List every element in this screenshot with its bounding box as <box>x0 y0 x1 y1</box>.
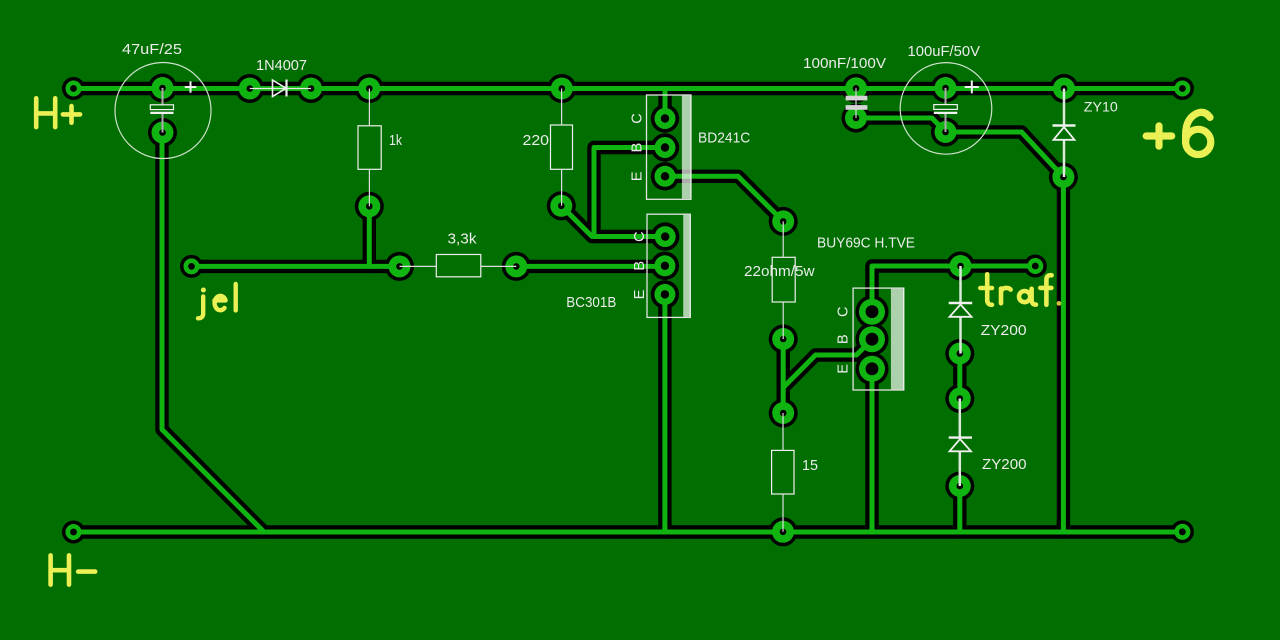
pad R1 1k top copper <box>358 78 380 100</box>
pad R5 15 bottom hole <box>780 529 787 536</box>
pad rail end hole <box>1179 528 1186 535</box>
svg-text:E: E <box>632 289 648 299</box>
wire bottom rail H- <box>74 525 1183 538</box>
pad R2 220 top ring <box>547 74 576 103</box>
resistor R5 15 <box>772 450 794 494</box>
wire H+ top rail copper <box>74 86 1183 91</box>
pad jel input ring <box>180 255 203 278</box>
pad C3 100uF plus copper <box>935 77 957 99</box>
capacitor C1 47uF/25 circle <box>115 63 211 159</box>
pad traf terminal copper <box>1027 258 1043 274</box>
pad U1 BD241C C copper <box>655 108 676 129</box>
wire H+ top rail <box>74 82 1183 95</box>
wire BUY69C base branch copper <box>783 339 872 387</box>
wire 100uF to ZY10 copper <box>946 132 1064 177</box>
pad H- terminal ring <box>62 521 85 544</box>
pad R5 15 top ring <box>769 399 798 428</box>
wire BD241C collector copper <box>663 89 668 119</box>
pad Q2 BC301B B ring <box>651 252 679 280</box>
pad U1 BD241C E hole <box>661 172 669 180</box>
wire BD241C base U-route <box>594 148 665 237</box>
pad D4 ZY200 top hole <box>957 395 964 402</box>
pad C2 100nF bottom ring <box>842 104 871 133</box>
pad C2 100nF bottom hole <box>853 115 860 122</box>
svg-text:1N4007: 1N4007 <box>256 57 307 74</box>
wire 3,3k to BC301B base <box>516 260 665 273</box>
pad Q2 BC301B C ring <box>651 222 679 250</box>
pad R4 22ohm top hole <box>780 218 787 225</box>
pad C1 47uF minus ring <box>148 118 177 147</box>
pad C1 47uF minus copper <box>152 122 174 144</box>
pad D2 ZY10 bottom ring <box>1049 163 1078 192</box>
resistor R2 220 <box>551 125 573 169</box>
pad R1 1k bottom hole <box>366 203 373 210</box>
pad R1 1k bottom ring <box>355 192 384 221</box>
transistor U1 BD241C metal stripe <box>682 96 691 199</box>
wire 47uF minus drop copper <box>162 133 264 533</box>
capacitor C3 plates <box>934 105 958 110</box>
pad C1 47uF plus ring <box>148 74 177 103</box>
pad D1 1N4007 anode hole <box>247 85 254 92</box>
resistor R1 1k <box>358 126 381 170</box>
svg-text:ZY10: ZY10 <box>1084 98 1118 114</box>
wire 3,3k to base copper <box>516 264 665 269</box>
pad R5 15 bottom copper <box>772 521 794 543</box>
pad R4 22ohm top copper <box>772 210 794 232</box>
capacitor C2 100nF plates <box>846 96 868 101</box>
capacitor C3 100uF/50V circle <box>900 63 992 155</box>
wire ZY10 drop to rail <box>1057 177 1070 532</box>
pad R2 220 bottom copper <box>550 195 572 217</box>
pad U1 BD241C B copper <box>655 137 676 158</box>
pad D1 1N4007 anode copper <box>239 78 261 100</box>
pad H+ terminal copper <box>66 81 82 97</box>
pad R5 15 bottom ring <box>769 517 798 546</box>
pad Q3 BUY69C C hole <box>866 305 879 318</box>
svg-text:ZY200: ZY200 <box>982 456 1027 473</box>
capacitor C2 100nF leads <box>855 88 857 118</box>
svg-text:100uF/50V: 100uF/50V <box>908 43 981 60</box>
pad C3 100uF plus ring <box>931 74 960 103</box>
pad C1 47uF plus copper <box>152 77 174 99</box>
pad C2 100nF top hole <box>853 85 860 92</box>
wire branch to BUY69C base <box>783 339 872 387</box>
svg-text:C: C <box>836 306 852 316</box>
transistor Q3 BUY69C metal stripe <box>891 289 904 390</box>
pad R5 15 top hole <box>780 410 787 417</box>
pad R2 220 bottom hole <box>558 203 565 210</box>
diode D2 ZY10 symbol <box>1053 124 1076 126</box>
capacitor C1 plates <box>150 105 173 110</box>
svg-text:B: B <box>632 261 648 271</box>
svg-text:E: E <box>630 171 646 181</box>
pad rail end copper <box>1174 524 1190 540</box>
pad Q3 BUY69C B copper <box>859 326 885 352</box>
svg-text:100nF/100V: 100nF/100V <box>803 55 886 72</box>
svg-text:BUY69C H.TVE: BUY69C H.TVE <box>817 235 915 252</box>
pad Q2 BC301B E ring <box>651 280 679 308</box>
pad R3 3,3k left ring <box>385 252 414 281</box>
pad Q3 BUY69C B hole <box>866 333 879 346</box>
pad D2 ZY10 bottom copper <box>1052 166 1074 188</box>
pad C3 100uF minus copper <box>935 121 957 143</box>
pad Q3 BUY69C E copper <box>859 356 885 382</box>
wire 100nF jog copper <box>856 118 946 132</box>
pad Q3 BUY69C C ring <box>856 295 889 328</box>
pad Q2 BC301B B hole <box>661 262 669 270</box>
wire bottom rail copper <box>74 530 1183 535</box>
pad H+ terminal hole <box>70 85 77 92</box>
pad R2 220 top copper <box>551 78 573 100</box>
transistor Q3 BUY69C outline <box>853 288 904 390</box>
pad +6 output hole <box>1179 85 1186 92</box>
pad D3 ZY200 top hole <box>957 263 964 270</box>
transistor U1 BD241C outline <box>647 95 692 199</box>
pad D4 ZY200 top copper <box>949 388 971 410</box>
pad R5 15 top copper <box>772 402 794 424</box>
pad D2 ZY10 top copper <box>1053 78 1075 100</box>
svg-text:E: E <box>836 364 852 374</box>
pad R4 22ohm top ring <box>769 207 798 236</box>
wire 220 bottom diagonal <box>561 206 592 237</box>
wire traf extension <box>961 259 1036 272</box>
node +6 <box>1146 112 1211 154</box>
svg-text:BC301B: BC301B <box>566 294 616 311</box>
pad U1 BD241C E copper <box>655 166 676 187</box>
pad R4 22ohm bottom ring <box>769 325 798 354</box>
pad R3 3,3k right copper <box>505 255 527 277</box>
svg-text:22ohm/5w: 22ohm/5w <box>744 263 815 280</box>
transistor Q2 BC301B outline <box>647 214 690 317</box>
svg-text:C: C <box>630 113 646 123</box>
pad H- terminal copper <box>66 524 82 540</box>
wire BD241C collector up <box>658 89 671 119</box>
wire 22ohm-15 vertical copper <box>781 339 786 413</box>
pad Q3 BUY69C C copper <box>859 299 885 325</box>
pad +6 output copper <box>1174 81 1190 97</box>
pad R3 3,3k left copper <box>389 255 411 277</box>
pad Q2 BC301B E hole <box>661 290 669 298</box>
node H+ <box>36 98 80 127</box>
pad C3 100uF minus hole <box>942 129 949 136</box>
pad D4 ZY200 bottom hole <box>957 483 964 490</box>
pad jel input copper <box>184 258 200 274</box>
pad D1 1N4007 cathode ring <box>297 74 326 103</box>
pad Q3 BUY69C E ring <box>856 352 889 385</box>
wire ZY200 mid copper <box>957 354 962 399</box>
diode D3 ZY200 top symbol <box>949 302 973 304</box>
pad C2 100nF bottom copper <box>845 107 867 129</box>
pad D4 ZY200 bottom ring <box>945 472 974 501</box>
pad rail end ring <box>1171 520 1194 543</box>
pad U1 BD241C C ring <box>651 104 679 132</box>
svg-text:47uF/25: 47uF/25 <box>122 41 182 58</box>
wire ZY200 mid <box>953 354 966 399</box>
wire ZY10 drop copper <box>1061 177 1066 532</box>
wire BUY69C collector copper <box>872 266 961 312</box>
svg-text:BD241C: BD241C <box>698 129 750 146</box>
node traf. <box>980 274 1061 306</box>
pad R3 3,3k right hole <box>513 263 520 270</box>
wire 1k drop copper <box>367 206 372 266</box>
diode D3 ZY200 top leads <box>959 266 962 354</box>
pad Q2 BC301B B copper <box>654 255 675 276</box>
pad R1 1k top hole <box>366 85 373 92</box>
pad traf terminal hole <box>1032 263 1039 270</box>
pad R3 3,3k right ring <box>502 252 531 281</box>
resistor R4 22ohm/5w <box>772 257 795 302</box>
pad R4 22ohm bottom hole <box>780 336 787 343</box>
pad Q3 BUY69C E hole <box>866 362 879 375</box>
capacitor C3 plus mark <box>965 81 979 94</box>
pad Q2 BC301B C copper <box>655 226 676 247</box>
svg-text:1k: 1k <box>389 132 402 149</box>
pad H+ terminal ring <box>62 77 85 100</box>
wire 100nF bottom jog <box>856 118 946 132</box>
wire BD241C emitter to 22ohm <box>665 176 783 221</box>
pad C2 100nF top ring <box>842 74 871 103</box>
pad U1 BD241C C hole <box>661 114 669 122</box>
capacitor C3 leads <box>945 88 947 132</box>
pad C2 100nF top copper <box>845 77 867 99</box>
pad D4 ZY200 bottom copper <box>949 475 971 497</box>
pad D1 1N4007 anode ring <box>235 74 264 103</box>
wire jel horizontal copper <box>192 264 400 269</box>
node jel <box>198 284 236 318</box>
pad D2 ZY10 top ring <box>1050 74 1079 103</box>
transistor Q2 BC301B metal stripe <box>683 215 690 317</box>
pad U1 BD241C E ring <box>651 162 679 190</box>
pad D4 ZY200 top ring <box>945 384 974 413</box>
capacitor C1 plus mark <box>185 81 197 93</box>
svg-text:B: B <box>630 143 646 153</box>
pad D1 1N4007 cathode hole <box>308 85 315 92</box>
pad jel input hole <box>188 263 195 270</box>
pad H- terminal hole <box>70 529 77 536</box>
pad D3 ZY200 top copper <box>950 255 972 277</box>
pad D2 ZY10 top hole <box>1061 85 1068 92</box>
wire BD241C base U copper <box>594 148 665 237</box>
wire BC301B emitter down <box>658 294 671 532</box>
diode D4 ZY200 bottom leads <box>959 399 962 487</box>
pad R4 22ohm bottom copper <box>772 328 794 350</box>
diode D1 1N4007 lead <box>250 88 311 90</box>
pad Q2 BC301B C hole <box>661 232 669 240</box>
diode D4 ZY200 bottom symbol <box>949 436 972 438</box>
svg-text:220: 220 <box>523 132 550 149</box>
wire 1k drop <box>363 206 376 266</box>
svg-text:3,3k: 3,3k <box>448 231 478 248</box>
pad Q3 BUY69C B ring <box>856 323 889 356</box>
pad R2 220 top hole <box>559 85 566 92</box>
wire jel horizontal <box>192 260 400 273</box>
pad D3 ZY200 bottom copper <box>949 343 971 365</box>
wire 220 diagonal copper <box>561 206 592 237</box>
wire BC301B emitter copper <box>662 294 667 532</box>
wire BD241C emitter copper <box>665 176 783 221</box>
pad C3 100uF plus hole <box>942 85 949 92</box>
wire traf extension copper <box>961 264 1036 269</box>
pad Q2 BC301B E copper <box>654 284 675 305</box>
pad U1 BD241C B ring <box>651 133 679 161</box>
pad +6 output ring <box>1171 77 1194 100</box>
pad R1 1k bottom copper <box>358 195 380 217</box>
pad traf terminal ring <box>1024 255 1047 278</box>
capacitor C1 leads <box>162 88 164 133</box>
svg-text:15: 15 <box>802 457 818 474</box>
svg-text:ZY200: ZY200 <box>981 322 1027 339</box>
pad D3 ZY200 bottom hole <box>957 350 964 357</box>
pad D1 1N4007 cathode copper <box>300 78 322 100</box>
wire BUY69C emitter down <box>865 369 878 532</box>
wire BUY69C collector to traf pad <box>872 266 961 312</box>
diode D2 ZY10 leads <box>1063 89 1066 178</box>
pad D3 ZY200 top ring <box>946 252 975 281</box>
wire 100uF minus to ZY10 <box>946 132 1064 177</box>
svg-text:B: B <box>836 334 852 344</box>
pad R1 1k top ring <box>355 74 384 103</box>
wire 47uF minus drop to bottom rail <box>162 133 264 533</box>
resistor R3 3,3k <box>436 255 481 277</box>
svg-text:C: C <box>632 231 648 241</box>
diode D1 1N4007 symbol <box>273 80 287 97</box>
pad D2 ZY10 bottom hole <box>1060 174 1067 181</box>
pad C1 47uF plus hole <box>159 85 166 92</box>
wire ZY200 bottom to rail <box>953 486 966 532</box>
pad R2 220 bottom ring <box>547 191 576 220</box>
pad C3 100uF minus ring <box>931 118 960 147</box>
wire BUY69C emitter copper <box>870 369 875 532</box>
pad R3 3,3k left hole <box>396 263 403 270</box>
wire 22ohm to 15 vertical <box>777 339 790 413</box>
pad C1 47uF minus hole <box>159 129 166 136</box>
node H- <box>51 555 96 584</box>
pad U1 BD241C B hole <box>661 143 669 151</box>
wire ZY200 bottom copper <box>957 486 962 532</box>
pad D3 ZY200 bottom ring <box>945 339 974 368</box>
